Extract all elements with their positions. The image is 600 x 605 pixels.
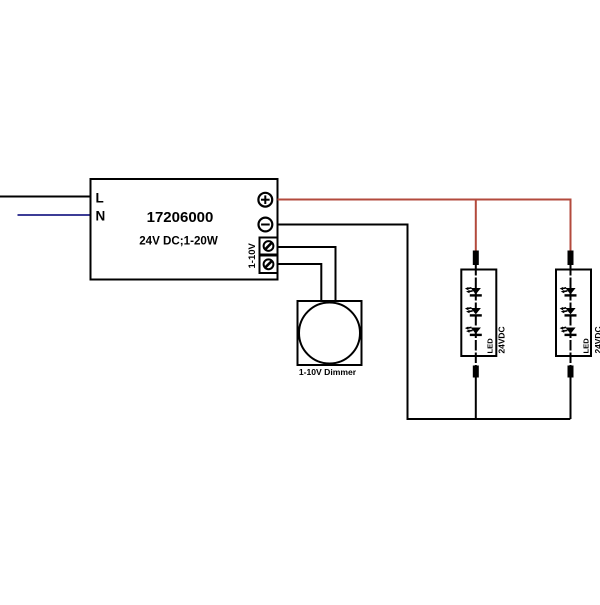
wire red branch to LED module 1 bbox=[475, 200, 477, 251]
LED D1a bbox=[465, 287, 482, 295]
svg-text:1-10V: 1-10V bbox=[247, 242, 258, 268]
svg-text:24V DC;1-20W: 24V DC;1-20W bbox=[139, 235, 218, 248]
crimp bottom D1 bbox=[473, 366, 479, 378]
terminal + (positive output) bbox=[258, 193, 272, 207]
LED D1c bbox=[465, 327, 482, 335]
wire +24V red bus bbox=[278, 200, 571, 251]
LED D2c bbox=[560, 327, 577, 335]
svg-text:1-10V Dimmer: 1-10V Dimmer bbox=[299, 367, 357, 377]
wire bottom D1 bbox=[475, 378, 477, 420]
terminal - (negative output) bbox=[259, 218, 273, 232]
wire bottom D2 bbox=[570, 378, 572, 420]
LED module D2 bbox=[556, 251, 600, 420]
screw terminal block 1-10V lower bbox=[260, 256, 278, 274]
svg-text:L: L bbox=[96, 191, 104, 206]
LED D2b bbox=[560, 307, 577, 315]
svg-text:24VDC: 24VDC bbox=[593, 327, 600, 354]
screw terminal block 1-10V upper bbox=[260, 238, 278, 255]
wire dashed center D2 bbox=[570, 265, 572, 366]
wire L input (black mains line) bbox=[0, 196, 91, 198]
LED D1b bbox=[465, 307, 482, 315]
LED D2a bbox=[560, 287, 577, 295]
driver U1 17206000 box bbox=[91, 179, 278, 280]
box D1 bbox=[461, 270, 496, 357]
crimp bottom D2 bbox=[568, 366, 574, 378]
svg-text:17206000: 17206000 bbox=[147, 209, 214, 226]
wire dim control upper bbox=[278, 247, 336, 301]
svg-text:24VDC: 24VDC bbox=[497, 327, 507, 354]
box D2 bbox=[556, 270, 591, 357]
crimp top D1 bbox=[473, 251, 479, 266]
wire 0V return from - terminal bbox=[278, 225, 571, 420]
svg-text:LED: LED bbox=[486, 338, 495, 354]
crimp top D2 bbox=[568, 251, 574, 266]
wire dim control lower bbox=[278, 264, 322, 301]
svg-text:N: N bbox=[96, 209, 106, 224]
LED module D1 bbox=[461, 251, 506, 420]
wire dashed center D1 bbox=[475, 265, 477, 366]
dimmer S1 1-10V Dimmer bbox=[298, 301, 362, 365]
wire N input (blue neutral line) bbox=[18, 214, 91, 216]
svg-text:LED: LED bbox=[582, 338, 591, 354]
